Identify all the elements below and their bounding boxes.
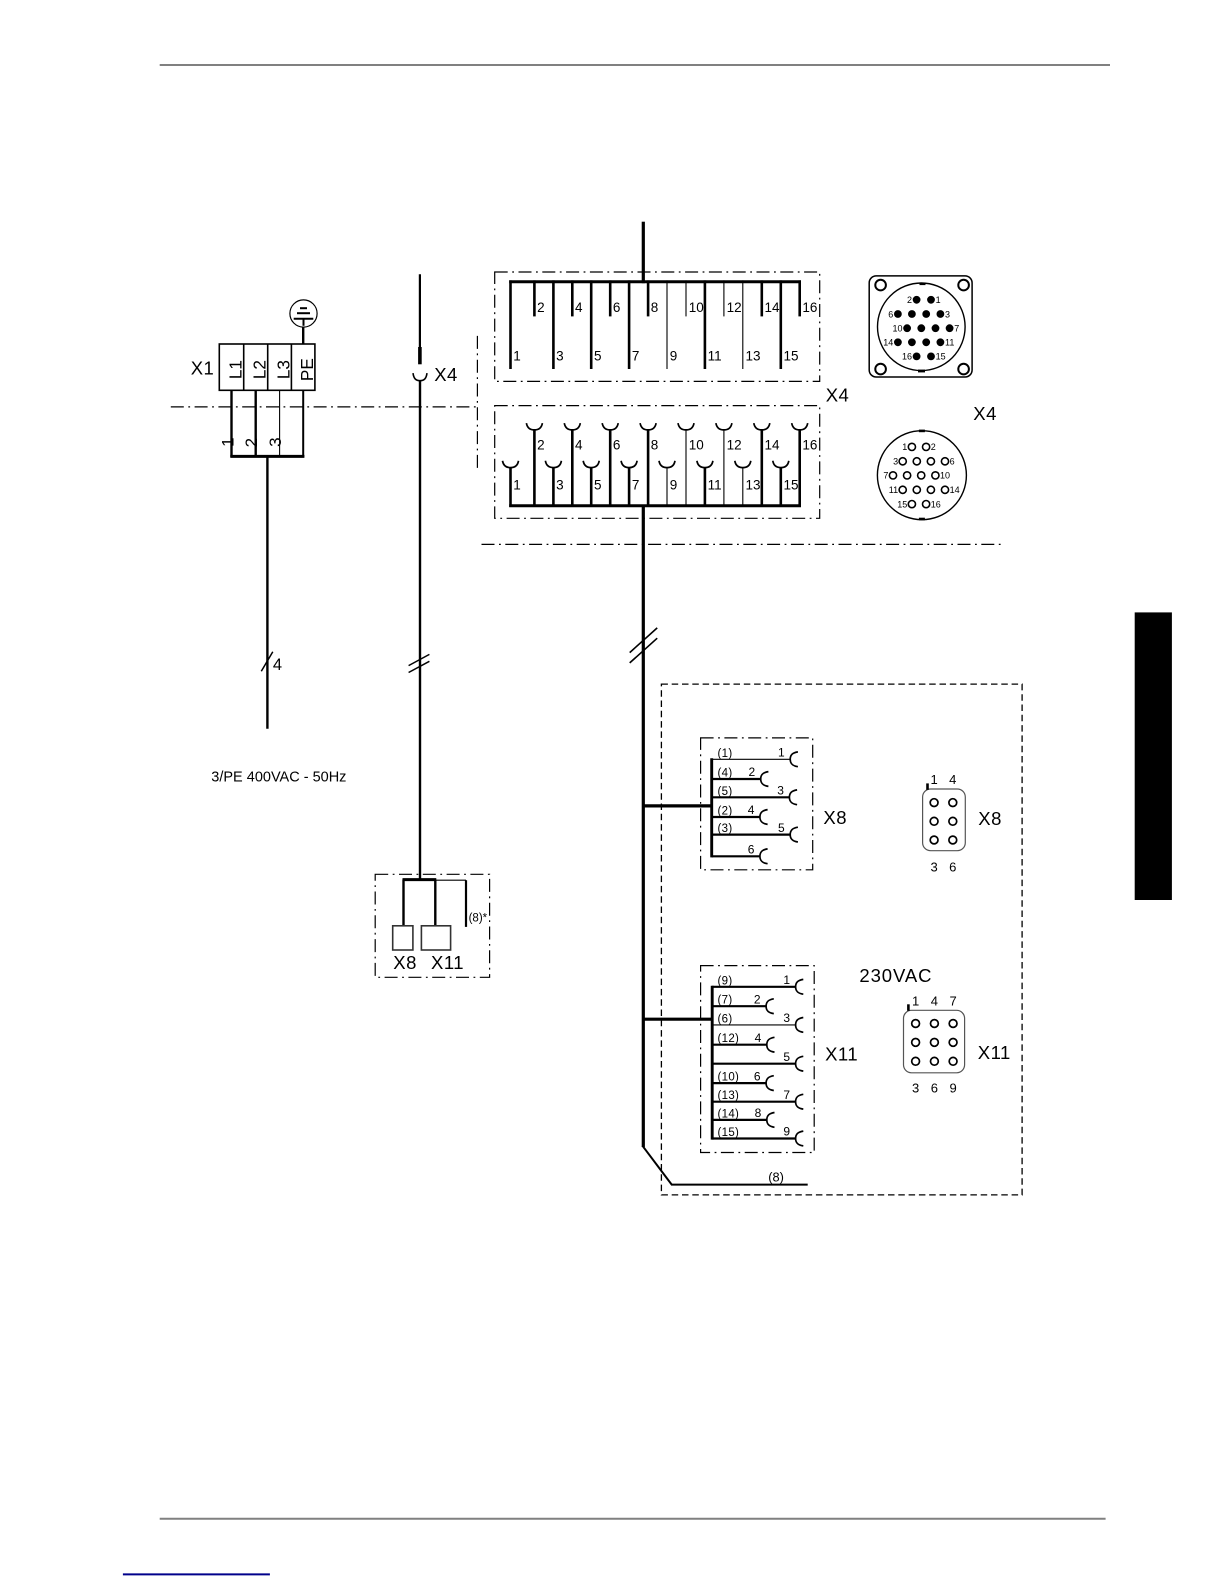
socket 8 X4 bottom block (640, 423, 658, 507)
connector X11 face (904, 993, 965, 1095)
terminal label PE (297, 358, 317, 381)
label X1 (191, 357, 215, 378)
pin 5 X4 top block (591, 280, 601, 369)
svg-text:3: 3 (266, 437, 285, 446)
svg-text:4: 4 (748, 803, 755, 817)
svg-text:3: 3 (930, 859, 937, 874)
svg-text:(3): (3) (718, 823, 733, 835)
socket 11 X4 bottom block (697, 461, 722, 507)
svg-text:PE: PE (297, 358, 317, 381)
svg-text:(1): (1) (718, 748, 733, 760)
label X8 connector (978, 808, 1002, 829)
pin 10 X4 top block (686, 280, 704, 316)
enclosure box stub (375, 874, 489, 977)
contact X4 socket (413, 373, 427, 381)
pin 1 X11 (712, 973, 803, 994)
svg-text:3: 3 (945, 309, 950, 319)
stub box X11 (421, 926, 450, 950)
svg-text:6: 6 (613, 300, 621, 315)
svg-text:1: 1 (513, 349, 521, 364)
stub label (8)* (469, 913, 488, 925)
stub wire to X8 (402, 880, 404, 926)
svg-text:5: 5 (594, 349, 602, 364)
svg-text:14: 14 (765, 438, 781, 453)
svg-text:16: 16 (902, 352, 912, 362)
svg-text:L2: L2 (250, 360, 270, 379)
terminal label L2 (250, 360, 270, 379)
socket 9 X4 bottom block (659, 461, 677, 507)
svg-text:6: 6 (949, 859, 956, 874)
svg-text:(9): (9) (718, 975, 733, 987)
svg-text:X1: X1 (191, 357, 215, 378)
connector X4 male pins (883, 295, 959, 362)
svg-text:230VAC: 230VAC (859, 965, 932, 986)
terminal label L1 (226, 360, 246, 379)
pin 9 X11 (712, 1125, 803, 1146)
pin 5 X8 (712, 821, 798, 842)
stub bus bar (403, 878, 437, 881)
svg-text:1: 1 (783, 973, 790, 987)
pin 15 X4 top block (781, 280, 799, 369)
svg-text:12: 12 (727, 438, 742, 453)
pin 12 X4 top block (724, 280, 742, 316)
svg-text:X8: X8 (823, 807, 847, 828)
svg-text:10: 10 (940, 471, 950, 481)
svg-text:(5): (5) (718, 786, 733, 798)
pin 5 X11 (712, 1050, 803, 1071)
svg-text:6: 6 (748, 843, 755, 857)
pin 3 X11 (712, 1011, 803, 1032)
svg-text:8: 8 (651, 438, 659, 453)
tap to X8 (643, 804, 711, 807)
svg-text:(8): (8) (768, 1170, 784, 1185)
svg-text:10: 10 (689, 300, 704, 315)
svg-text:3: 3 (783, 1011, 790, 1025)
svg-text:X11: X11 (431, 952, 464, 973)
socket 16 X4 bottom block (792, 423, 818, 507)
svg-text:9: 9 (949, 1080, 956, 1095)
boundary line left (171, 406, 478, 408)
svg-text:14: 14 (950, 485, 960, 495)
pin 8 X11 (712, 1106, 774, 1127)
socket 1 X4 bottom block (503, 461, 521, 507)
label X4 contact (434, 364, 458, 385)
svg-text:15: 15 (784, 349, 799, 364)
stub wire (8) (435, 880, 466, 927)
svg-text:7: 7 (883, 471, 888, 481)
wire (8) horizontal (671, 1184, 808, 1186)
svg-text:1: 1 (778, 746, 785, 760)
socket 3 X4 bottom block (545, 461, 563, 507)
stub label X11 (431, 952, 464, 973)
connector X4 female face (877, 430, 966, 521)
svg-text:X8: X8 (978, 808, 1002, 829)
svg-text:13: 13 (746, 478, 761, 493)
cable break marks main (630, 628, 658, 663)
svg-text:(10): (10) (718, 1072, 740, 1084)
svg-text:1: 1 (218, 437, 237, 446)
svg-text:2: 2 (242, 438, 261, 447)
svg-text:6: 6 (754, 1069, 761, 1083)
pin 4 X11 (712, 1031, 774, 1052)
socket 2 X4 bottom block (526, 423, 544, 507)
svg-text:2: 2 (537, 300, 545, 315)
svg-text:2: 2 (907, 295, 912, 305)
connector X8 face (923, 772, 966, 874)
stub label X8 (393, 952, 417, 973)
boundary line vertical (476, 336, 478, 472)
conductor label 3 (266, 437, 285, 446)
svg-text:7: 7 (632, 349, 640, 364)
label 230VAC (859, 965, 932, 986)
svg-text:9: 9 (783, 1125, 790, 1139)
pin 13 X4 top block (743, 280, 761, 369)
connector X4 female sockets (883, 442, 959, 509)
svg-text:12: 12 (727, 300, 742, 315)
enclosure box X8 (701, 738, 813, 870)
svg-text:(14): (14) (718, 1108, 740, 1120)
svg-text:1: 1 (902, 442, 907, 452)
svg-text:X4: X4 (434, 364, 458, 385)
pin 11 X4 top block (705, 280, 722, 369)
svg-text:13: 13 (746, 349, 761, 364)
svg-text:14: 14 (765, 300, 781, 315)
label X8 group (823, 807, 847, 828)
svg-text:3: 3 (912, 1080, 919, 1095)
svg-text:15: 15 (936, 352, 946, 362)
label X11 connector (978, 1042, 1011, 1063)
stub wire to X11 (434, 880, 436, 926)
wire X1-2 down (254, 390, 256, 457)
pin 8 X4 top block (648, 280, 658, 316)
svg-text:6: 6 (931, 1080, 938, 1095)
svg-text:4: 4 (755, 1031, 762, 1045)
svg-text:X11: X11 (825, 1044, 858, 1065)
svg-text:L1: L1 (226, 360, 246, 379)
svg-text:X4: X4 (826, 385, 850, 406)
tap to X11 (643, 1018, 712, 1021)
label X4 female (973, 403, 997, 424)
conductor label 1 (218, 437, 237, 446)
wire ground to X1 PE (302, 327, 304, 344)
pin 7 X4 top block (629, 280, 639, 369)
svg-text:1: 1 (930, 772, 937, 787)
svg-text:9: 9 (670, 478, 678, 493)
machine enclosure dashed box (661, 684, 1022, 1195)
wire cable end (418, 347, 422, 364)
svg-text:3: 3 (777, 784, 784, 798)
svg-text:6: 6 (888, 309, 893, 319)
svg-text:7: 7 (632, 478, 640, 493)
svg-text:(4): (4) (718, 768, 733, 780)
svg-text:X8: X8 (393, 952, 417, 973)
svg-text:X4: X4 (973, 403, 997, 424)
socket 6 X4 bottom block (602, 423, 620, 507)
svg-text:11: 11 (708, 478, 722, 493)
svg-text:7: 7 (954, 324, 959, 334)
pin 7 X11 (712, 1088, 803, 1109)
socket 12 X4 bottom block (716, 423, 742, 507)
svg-text:1: 1 (513, 478, 521, 493)
pin 16 X4 top block (800, 280, 818, 316)
svg-text:L3: L3 (273, 360, 293, 379)
svg-text:16: 16 (802, 438, 817, 453)
pin 2 X8 (712, 765, 769, 786)
bus under X1 (230, 455, 304, 458)
bus X4 top block (509, 280, 801, 283)
svg-text:8: 8 (651, 300, 659, 315)
svg-text:10: 10 (689, 438, 704, 453)
wire X1-PE down (302, 390, 304, 457)
svg-text:(15): (15) (718, 1127, 740, 1139)
svg-text:7: 7 (783, 1088, 790, 1102)
wire X4 down (419, 381, 421, 880)
svg-text:4: 4 (575, 300, 583, 315)
bus X4 bottom block (509, 504, 801, 507)
svg-text:3/PE 400VAC - 50Hz: 3/PE 400VAC - 50Hz (211, 770, 346, 786)
svg-text:X11: X11 (978, 1042, 1011, 1063)
pin 6 X8 (712, 843, 768, 864)
svg-text:2: 2 (754, 992, 761, 1006)
wire to X4 contact (419, 274, 421, 347)
svg-text:4: 4 (273, 656, 282, 674)
boundary line lower (482, 543, 1004, 545)
svg-text:4: 4 (575, 438, 583, 453)
svg-text:2: 2 (931, 442, 936, 452)
pin 6 X11 (712, 1069, 774, 1090)
svg-text:15: 15 (897, 499, 907, 509)
svg-text:5: 5 (783, 1050, 790, 1064)
svg-text:6: 6 (613, 438, 621, 453)
svg-text:3: 3 (556, 478, 564, 493)
svg-text:(2): (2) (718, 806, 733, 818)
svg-text:(6): (6) (718, 1013, 733, 1025)
socket 13 X4 bottom block (735, 461, 761, 507)
svg-text:(8)*: (8)* (469, 913, 488, 925)
enclosure box X4 pins (495, 272, 820, 381)
pin 6 X4 top block (610, 280, 620, 316)
bus X11 (711, 986, 714, 1140)
svg-text:1: 1 (936, 295, 941, 305)
socket 7 X4 bottom block (621, 461, 639, 507)
footer rule (160, 1518, 1106, 1520)
svg-text:3: 3 (556, 349, 564, 364)
svg-text:2: 2 (537, 438, 545, 453)
main cable diagonal (643, 1146, 672, 1185)
footer link underline (123, 1573, 270, 1575)
svg-text:(7): (7) (718, 995, 733, 1007)
svg-text:4: 4 (949, 772, 956, 787)
stub box X8 (393, 926, 413, 950)
pin 3 X8 (712, 784, 797, 805)
svg-text:16: 16 (931, 499, 941, 509)
pin 4 X4 top block (572, 280, 583, 316)
label X11 group (825, 1044, 858, 1065)
svg-text:11: 11 (708, 349, 722, 364)
terminal label L3 (273, 360, 293, 379)
svg-text:3: 3 (893, 457, 898, 467)
svg-text:10: 10 (892, 324, 902, 334)
conductor count 4 (273, 656, 282, 674)
svg-text:1: 1 (912, 993, 919, 1008)
pin 1 X4 top block (511, 280, 521, 369)
wire X1-1 down (230, 390, 232, 457)
main cable X4 down (642, 506, 645, 1147)
cable slash mark (261, 652, 273, 672)
svg-text:(12): (12) (718, 1033, 740, 1045)
svg-text:(13): (13) (718, 1090, 740, 1102)
enclosure box X11 (701, 966, 815, 1153)
svg-text:8: 8 (755, 1106, 762, 1120)
svg-text:15: 15 (784, 478, 799, 493)
cable break marks X4 wire (409, 654, 430, 672)
pin 4 X8 (712, 803, 768, 824)
terminal block X1 (219, 344, 315, 390)
svg-text:5: 5 (778, 821, 785, 835)
svg-text:14: 14 (883, 338, 893, 348)
connector X4 male face flange (869, 276, 972, 377)
header rule (160, 64, 1110, 66)
wire label (8) (768, 1170, 784, 1185)
pin 2 X11 (712, 992, 774, 1013)
pin 2 X4 top block (534, 280, 544, 316)
enclosure box X4 sockets (495, 406, 820, 519)
svg-text:11: 11 (889, 485, 898, 495)
svg-text:9: 9 (670, 349, 678, 364)
wire X1-3 down (279, 390, 281, 457)
socket 10 X4 bottom block (678, 423, 704, 507)
pin 9 X4 top block (667, 280, 677, 369)
bus X8 (710, 758, 713, 857)
label supply (211, 770, 346, 786)
svg-text:6: 6 (950, 457, 955, 467)
ground symbol (290, 300, 317, 327)
svg-text:4: 4 (931, 993, 938, 1008)
svg-text:2: 2 (749, 765, 756, 779)
svg-text:7: 7 (949, 993, 956, 1008)
socket 14 X4 bottom block (754, 423, 780, 507)
pin 3 X4 top block (553, 280, 563, 369)
wire feeder into X4 top (642, 222, 645, 284)
pin 14 X4 top block (762, 280, 780, 316)
supply cable down (266, 456, 268, 728)
pin 1 X8 (712, 746, 798, 767)
conductor label 2 (242, 438, 261, 447)
label X4 enclosure (826, 385, 850, 406)
svg-text:16: 16 (802, 300, 817, 315)
socket 5 X4 bottom block (583, 461, 601, 507)
svg-text:11: 11 (945, 338, 954, 348)
section tab marker (1135, 612, 1172, 900)
svg-text:5: 5 (594, 478, 602, 493)
socket 15 X4 bottom block (773, 461, 799, 507)
socket 4 X4 bottom block (564, 423, 583, 507)
